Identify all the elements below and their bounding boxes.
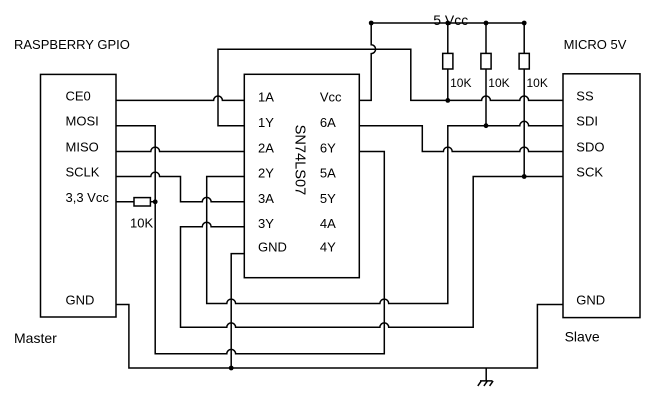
svg-text:Vcc: Vcc: [320, 90, 342, 105]
svg-text:SN74LS07: SN74LS07: [292, 125, 308, 196]
wire 6A to SDO: [359, 126, 563, 152]
svg-text:GND: GND: [576, 292, 605, 307]
wire 1Y to SS via top: [218, 49, 563, 126]
junction dot rail left: [369, 21, 374, 26]
resistor R2 10K pullup SDI: [485, 23, 487, 126]
svg-text:SCLK: SCLK: [66, 165, 100, 180]
svg-text:10K: 10K: [130, 216, 153, 231]
svg-text:Master: Master: [14, 330, 57, 346]
wire CE0 to 1A: [116, 96, 244, 100]
svg-text:10K: 10K: [527, 76, 548, 90]
junction dot rail R1: [445, 21, 450, 26]
svg-text:GND: GND: [66, 292, 95, 307]
wire 5Vcc rail: [371, 22, 524, 24]
svg-text:6Y: 6Y: [320, 140, 336, 155]
wire 3Y to SCK via bottom: [181, 177, 564, 328]
svg-text:3Y: 3Y: [258, 216, 274, 231]
wire 2Y to SDI via bottom: [207, 121, 563, 303]
resistor R4 10K on 3,3 Vcc: [116, 201, 155, 203]
svg-text:2Y: 2Y: [258, 166, 274, 181]
svg-text:SDI: SDI: [576, 114, 598, 129]
junction dot rail R3: [522, 21, 527, 26]
svg-text:4A: 4A: [320, 216, 336, 231]
ground symbol: [478, 368, 493, 386]
svg-text:RASPBERRY GPIO: RASPBERRY GPIO: [14, 37, 130, 52]
junction dot MOSI R4: [153, 199, 158, 204]
wire chip Vcc riser to rail: [359, 23, 375, 100]
svg-text:1A: 1A: [258, 90, 274, 105]
wire chip GND riser: [231, 254, 244, 368]
junction dot SS R1: [445, 98, 450, 103]
svg-text:CE0: CE0: [66, 88, 91, 103]
svg-text:3A: 3A: [258, 191, 274, 206]
Raspberry GPIO box: [41, 74, 117, 317]
SN74LS07 chip box U1: [244, 74, 359, 277]
Micro 5V box: [563, 74, 640, 318]
svg-text:SS: SS: [576, 88, 594, 103]
svg-text:5 Vcc: 5 Vcc: [433, 12, 468, 28]
svg-text:Slave: Slave: [565, 329, 600, 345]
svg-text:5A: 5A: [320, 166, 336, 181]
junction dot GND chip: [229, 366, 234, 371]
svg-text:MOSI: MOSI: [66, 114, 99, 129]
svg-text:10K: 10K: [450, 76, 471, 90]
resistor R1 10K pullup SS: [447, 23, 449, 100]
svg-text:SCK: SCK: [576, 165, 603, 180]
svg-text:3,3 Vcc: 3,3 Vcc: [66, 190, 110, 205]
svg-text:1Y: 1Y: [258, 115, 274, 130]
wire SCLK to 3A: [116, 172, 244, 202]
resistor R3 10K pullup SCK: [523, 23, 525, 177]
wire MISO to 2A: [116, 147, 244, 151]
svg-text:4Y: 4Y: [320, 240, 336, 255]
junction dot SDI R2: [484, 123, 489, 128]
svg-text:MISO: MISO: [66, 140, 99, 155]
wire MOSI to 6Y via bottom: [116, 126, 384, 354]
svg-text:SDO: SDO: [576, 140, 604, 155]
junction dot SCK R3: [522, 174, 527, 179]
svg-text:GND: GND: [258, 240, 287, 255]
svg-text:2A: 2A: [258, 140, 274, 155]
wire GND net left box to right box: [116, 305, 563, 369]
svg-text:5Y: 5Y: [320, 191, 336, 206]
junction dot rail R2: [484, 21, 489, 26]
svg-text:10K: 10K: [488, 76, 509, 90]
svg-text:6A: 6A: [320, 115, 336, 130]
svg-text:MICRO 5V: MICRO 5V: [564, 37, 627, 52]
